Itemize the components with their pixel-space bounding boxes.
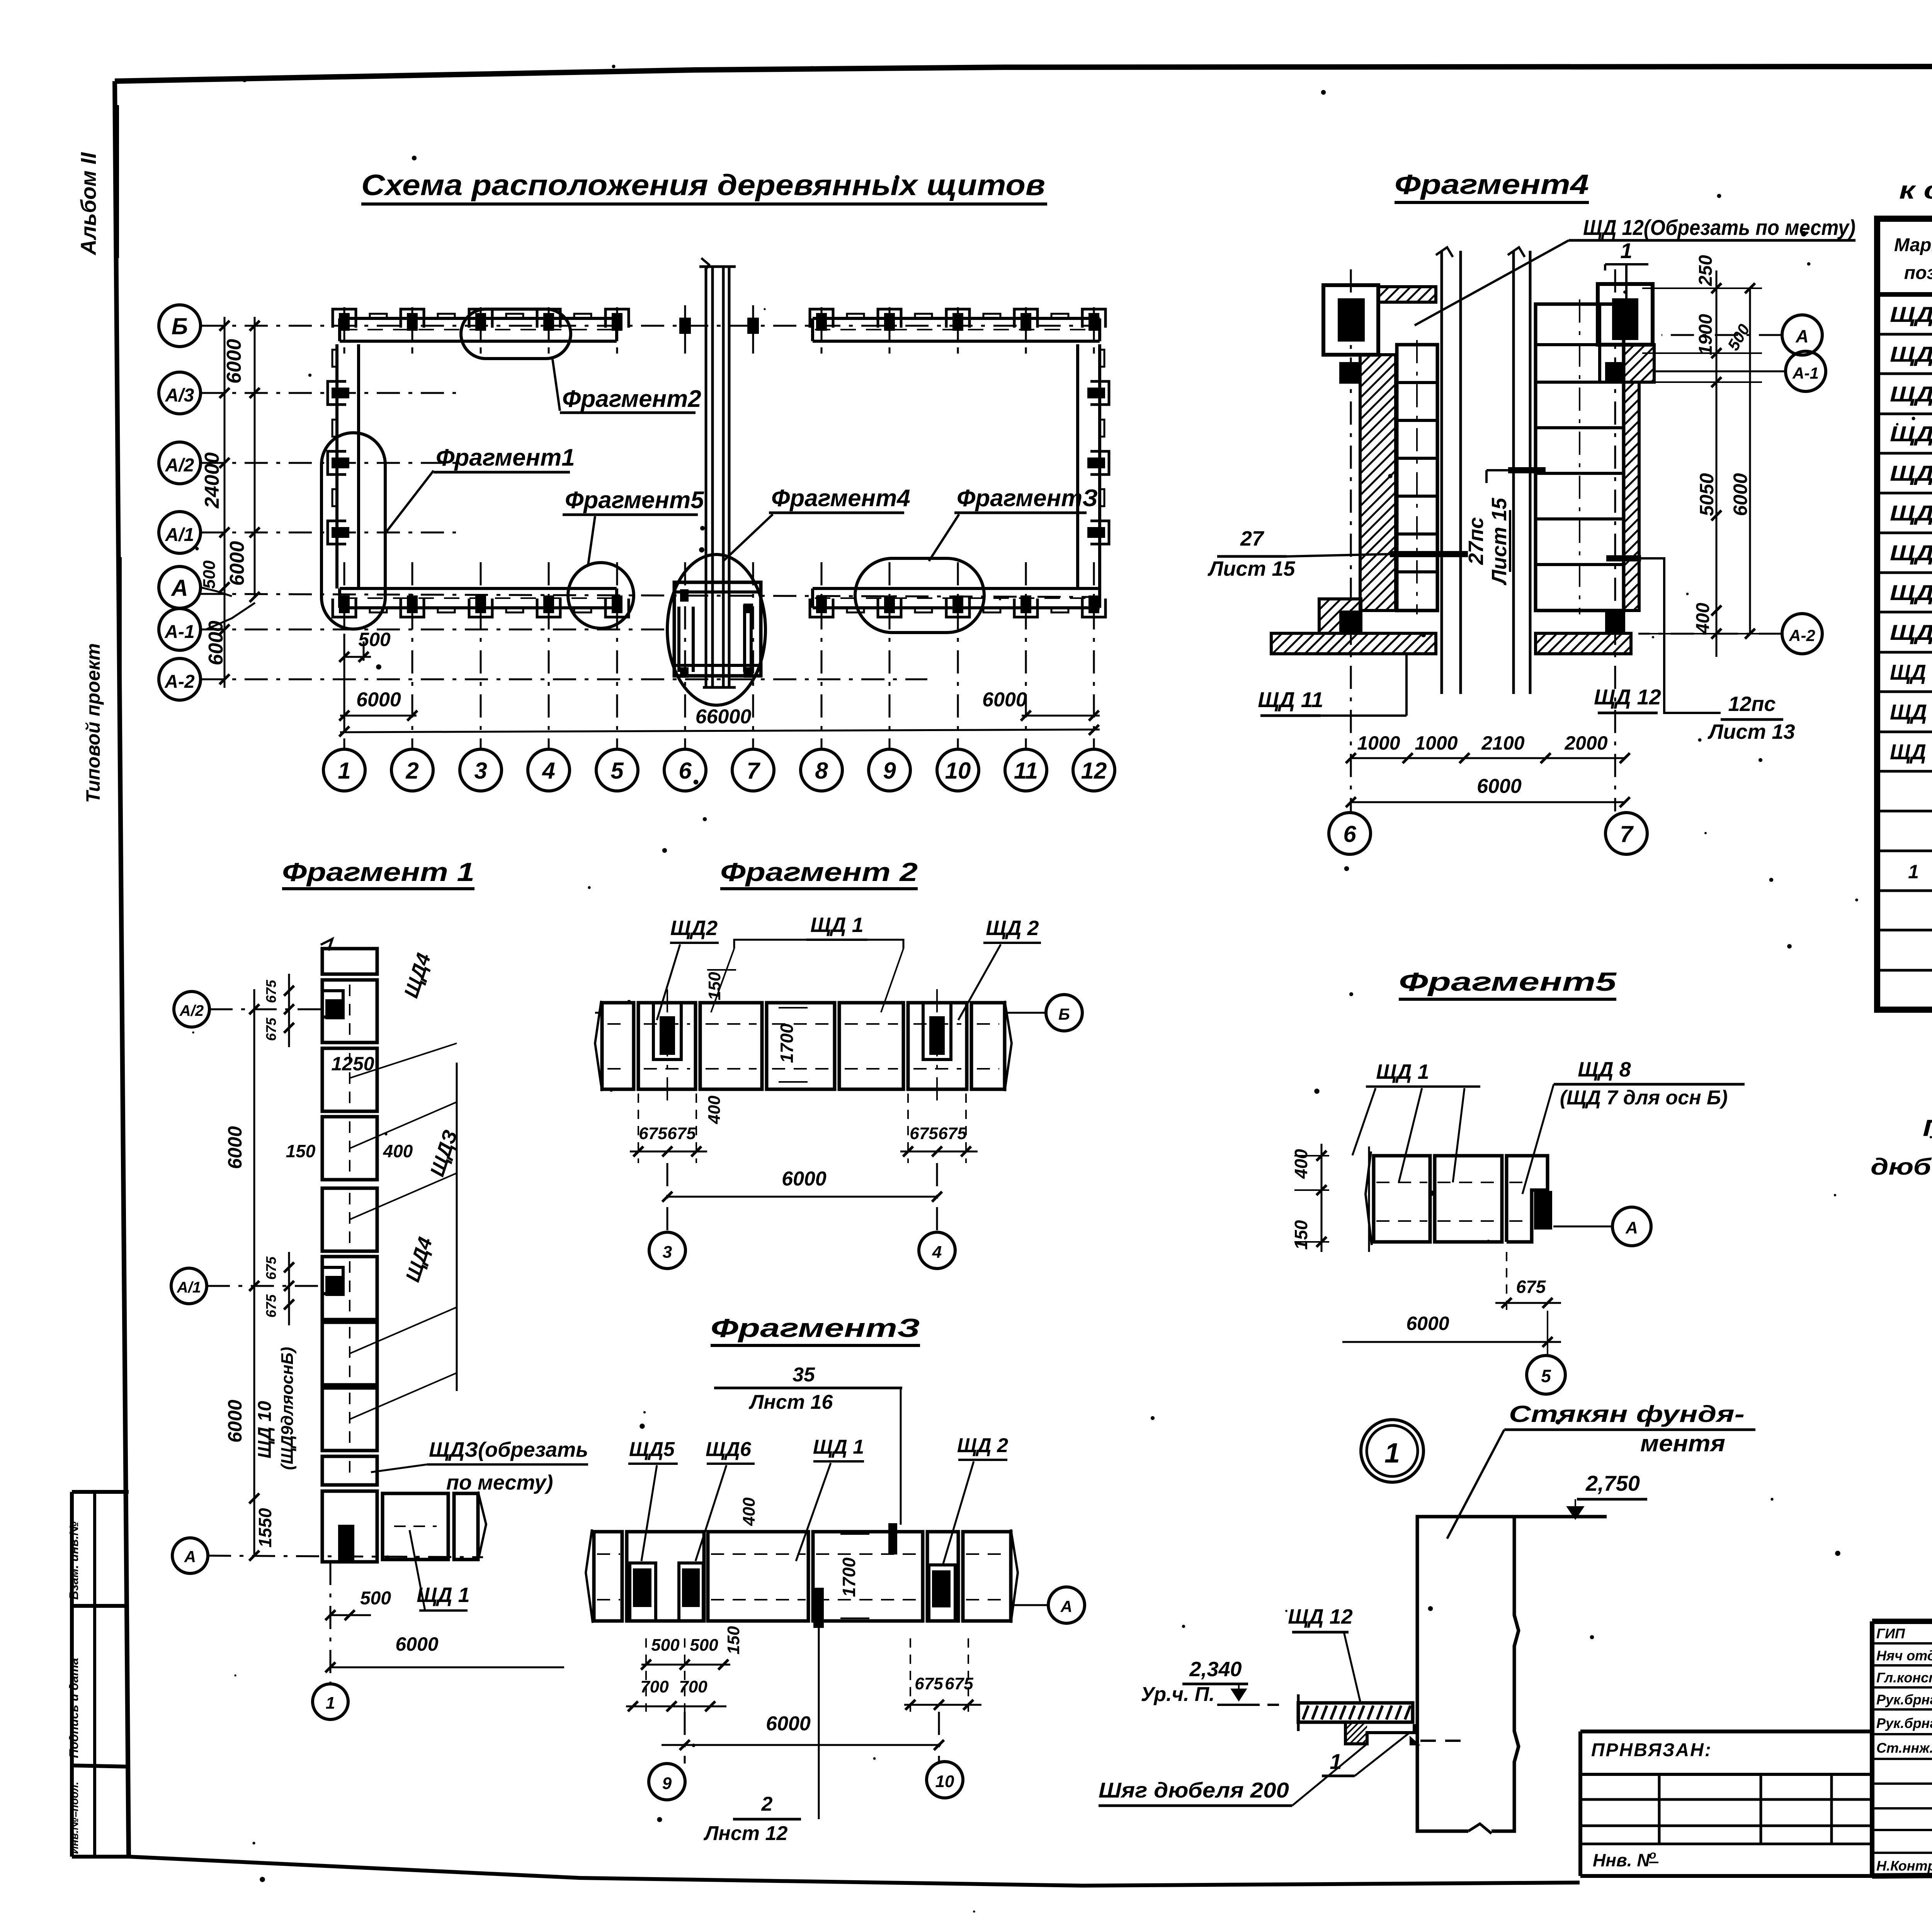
- fragment 3 panel run: [594, 1532, 622, 1621]
- svg-text:Ннв. N: Ннв. N: [1593, 1850, 1650, 1870]
- fragment 5 axis A circle: [1612, 1207, 1651, 1246]
- svg-text:500: 500: [690, 1636, 718, 1655]
- scan speckles: [1314, 1088, 1319, 1094]
- svg-text:6: 6: [679, 758, 692, 784]
- svg-text:675: 675: [938, 1124, 967, 1143]
- svg-text:А-1: А-1: [164, 622, 194, 642]
- svg-text:А: А: [1625, 1218, 1638, 1237]
- svg-text:Лист 15: Лист 15: [1488, 497, 1511, 585]
- svg-text:6000: 6000: [356, 689, 401, 711]
- fragment 1 pockets with black squares: [322, 991, 343, 1017]
- fragment 4 column 6 axis: [1350, 269, 1352, 811]
- svg-text:Ст.ннж.: Ст.ннж.: [1876, 1740, 1932, 1756]
- svg-text:Няч отд.: Няч отд.: [1876, 1648, 1932, 1663]
- svg-text:400: 400: [1291, 1149, 1311, 1179]
- svg-text:4: 4: [542, 758, 555, 784]
- svg-text:ЩД6: ЩД6: [706, 1438, 752, 1461]
- svg-text:Лнст 12: Лнст 12: [703, 1822, 788, 1845]
- standalone squares on B axis cols 6,7: [679, 318, 691, 334]
- svg-text:675: 675: [263, 1017, 279, 1041]
- privyazan box: [1580, 1730, 1872, 1733]
- svg-text:700: 700: [640, 1677, 669, 1696]
- svg-text:6000: 6000: [782, 1168, 827, 1190]
- signature table: [1872, 1642, 1932, 1645]
- svg-text:6000: 6000: [1730, 473, 1751, 516]
- svg-text:Инв.№=подл.: Инв.№=подл.: [68, 1782, 80, 1854]
- building left wall: [335, 344, 338, 588]
- svg-text:ФрагментЗ: ФрагментЗ: [957, 485, 1098, 512]
- svg-text:11: 11: [1014, 758, 1038, 784]
- fragment 1 axis circles: [174, 992, 209, 1027]
- svg-text:А/2: А/2: [165, 455, 194, 476]
- svg-text:150: 150: [724, 1626, 743, 1655]
- svg-text:1900: 1900: [1696, 314, 1716, 355]
- svg-text:Гл.констр: Гл.констр: [1876, 1670, 1932, 1685]
- svg-text:7: 7: [747, 758, 760, 784]
- svg-text:7: 7: [1620, 821, 1634, 847]
- svg-text:ЩД 7: ЩД 7: [1890, 541, 1932, 565]
- fragment 4 27 list 15 marker left: [1390, 551, 1468, 557]
- fragment 3 pocket col 10: [927, 1532, 958, 1621]
- svg-text:1000: 1000: [1357, 732, 1400, 754]
- svg-text:4: 4: [932, 1243, 942, 1262]
- svg-text:ЩД 12: ЩД 12: [1288, 1605, 1352, 1628]
- svg-text:675: 675: [667, 1124, 696, 1143]
- fragment 4 bottom dimensions: [1351, 757, 1625, 759]
- svg-text:9: 9: [662, 1774, 672, 1793]
- fragment 4 right black squares: [1605, 362, 1625, 384]
- svg-text:675: 675: [639, 1124, 667, 1143]
- fragment 1 bottom black bar: [338, 1525, 354, 1562]
- fragment 4 12ps marker: [1606, 555, 1641, 561]
- fragment 1 dimension column: [253, 989, 255, 1556]
- svg-text:А: А: [170, 575, 188, 601]
- svg-text:Лист 15: Лист 15: [1207, 557, 1295, 580]
- svg-text:Фрагмент 1: Фрагмент 1: [282, 857, 474, 887]
- svg-text:(ЩД 7 для осн Б): (ЩД 7 для осн Б): [1560, 1087, 1728, 1109]
- svg-text:675: 675: [945, 1674, 973, 1693]
- svg-text:Шяг дюбеля 200: Шяг дюбеля 200: [1099, 1778, 1289, 1802]
- svg-text:1: 1: [1620, 238, 1632, 263]
- svg-text:6000: 6000: [226, 541, 248, 586]
- svg-text:2000: 2000: [1564, 732, 1607, 754]
- svg-text:А/1: А/1: [177, 1279, 201, 1296]
- svg-text:ЩД 5: ЩД 5: [1890, 461, 1932, 485]
- svg-text:ЩД 11: ЩД 11: [1258, 687, 1323, 712]
- fragment 4 left hatched wall: [1360, 355, 1396, 611]
- fragment 4 left panel column: [1397, 345, 1437, 611]
- svg-text:6000: 6000: [395, 1633, 438, 1655]
- svg-text:Фрагмент1: Фрагмент1: [436, 444, 575, 471]
- svg-text:500: 500: [200, 560, 219, 589]
- svg-text:675: 675: [1516, 1277, 1546, 1297]
- svg-text:150: 150: [705, 972, 724, 1000]
- fragment 2 panel run: [602, 1003, 634, 1089]
- svg-text:ЩД 12: ЩД 12: [1594, 685, 1661, 709]
- svg-text:27пс: 27пс: [1464, 517, 1488, 565]
- svg-text:А/3: А/3: [165, 385, 194, 406]
- svg-text:6000: 6000: [982, 689, 1027, 711]
- title block outer frame: [1872, 1619, 1932, 1624]
- svg-text:1: 1: [326, 1694, 335, 1713]
- svg-text:ПРНВЯЗАН:: ПРНВЯЗАН:: [1591, 1740, 1712, 1760]
- svg-text:2,750: 2,750: [1585, 1471, 1640, 1495]
- fragment 2 pockets: [653, 1003, 681, 1060]
- fragment 4 rails: [1440, 251, 1443, 694]
- svg-text:ЩД 10: ЩД 10: [1890, 660, 1932, 684]
- building top wall run 1: [340, 317, 617, 320]
- fragment 4 right hatched wall: [1624, 345, 1654, 382]
- building top wall run 2: [813, 317, 1100, 320]
- svg-text:ЩД 1: ЩД 1: [810, 913, 863, 937]
- svg-text:2100: 2100: [1481, 732, 1524, 754]
- svg-text:по месту): по месту): [446, 1471, 553, 1494]
- svg-text:675: 675: [263, 1294, 279, 1318]
- plan left dimension lines: [224, 317, 226, 688]
- left margin attribute boxes: [72, 1490, 129, 1494]
- svg-text:1: 1: [338, 758, 350, 784]
- fragment 5 panels: [1374, 1156, 1430, 1242]
- column grid lines: [344, 307, 345, 354]
- svg-text:ЩД 4: ЩД 4: [1890, 422, 1932, 446]
- svg-text:1550: 1550: [255, 1508, 275, 1548]
- fragment 4 left corner block: [1323, 285, 1378, 355]
- svg-text:Фрагмент5: Фрагмент5: [565, 487, 704, 514]
- svg-text:675: 675: [263, 1256, 279, 1280]
- svg-text:6000: 6000: [224, 1400, 246, 1442]
- svg-text:5050: 5050: [1696, 473, 1718, 516]
- fragment 1 corner bottom: [322, 1491, 377, 1562]
- fragment 1 vertical panel strip: [322, 949, 377, 974]
- svg-text:Н.Контр.: Н.Контр.: [1876, 1858, 1932, 1874]
- svg-text:ЩД 2: ЩД 2: [957, 1434, 1008, 1457]
- fragment circle 5 on plan: [568, 563, 634, 628]
- svg-text:ЩД 12: ЩД 12: [1890, 740, 1932, 764]
- building right wall: [1076, 344, 1079, 588]
- svg-text:А/1: А/1: [165, 525, 194, 545]
- svg-text:2: 2: [405, 758, 418, 784]
- fragment 4 right bottom hatched band: [1536, 633, 1631, 654]
- svg-text:Лнст 16: Лнст 16: [748, 1391, 833, 1413]
- svg-text:10: 10: [945, 758, 971, 784]
- svg-text:Ур.ч. П.: Ур.ч. П.: [1141, 1683, 1214, 1706]
- svg-text:ЩД 1: ЩД 1: [813, 1436, 864, 1458]
- fragment oval 3 on plan: [855, 558, 984, 633]
- fragment 3 T pocket pair: [627, 1532, 704, 1621]
- svg-text:Фрагмент5: Фрагмент5: [1399, 967, 1617, 997]
- svg-text:3: 3: [663, 1243, 672, 1262]
- fragment 4 right panel column: [1536, 304, 1624, 611]
- column circles 1-12: [323, 749, 365, 791]
- svg-text:ЩД 2: ЩД 2: [986, 917, 1039, 940]
- svg-text:А: А: [184, 1548, 196, 1566]
- fragment 2 axis B circle: [1046, 995, 1082, 1031]
- page frame border: [115, 66, 1932, 81]
- fragment 4 right dimension lines: [1716, 270, 1718, 657]
- building bottom wall run 1: [340, 587, 617, 590]
- svg-text:А-2: А-2: [1789, 626, 1815, 645]
- wall panel centre dashes: [342, 329, 614, 330]
- svg-text:к схеме расположення деревян: к схеме расположення деревянных щнтов: [1899, 176, 1932, 204]
- spec table frame: [1877, 219, 1932, 1010]
- fragment 4 column 7 axis: [1614, 269, 1616, 811]
- svg-text:Лист 13: Лист 13: [1707, 720, 1795, 743]
- svg-text:Типовой проект: Типовой проект: [82, 643, 104, 803]
- fragment 1 bottom horizontal panels: [383, 1493, 448, 1560]
- svg-text:3: 3: [474, 758, 487, 784]
- svg-text:5: 5: [1541, 1366, 1551, 1386]
- svg-text:ЩД 11: ЩД 11: [1890, 700, 1932, 724]
- svg-text:6000: 6000: [1477, 775, 1522, 798]
- svg-text:675: 675: [263, 980, 279, 1003]
- fragment 4 left black squares: [1339, 362, 1361, 384]
- svg-text:поз.: поз.: [1904, 263, 1932, 283]
- black anchor arrow: [1410, 1736, 1420, 1745]
- svg-text:ЩДЗ(обрезать: ЩДЗ(обрезать: [429, 1438, 588, 1461]
- svg-text:Взам. инв.№: Взам. инв.№: [67, 1521, 81, 1600]
- fragment 3 black tick markers: [888, 1523, 897, 1554]
- svg-text:1: 1: [1908, 861, 1919, 883]
- svg-text:27: 27: [1240, 527, 1265, 550]
- svg-text:ЩД 8: ЩД 8: [1578, 1058, 1631, 1081]
- svg-text:Фрагмент4: Фрагмент4: [1395, 169, 1589, 200]
- svg-text:Схема расположения деревянных: Схема расположения деревянных щитов: [361, 169, 1045, 202]
- svg-text:675: 675: [910, 1124, 938, 1143]
- svg-text:675: 675: [915, 1674, 943, 1693]
- svg-text:Б: Б: [172, 313, 188, 339]
- svg-text:ЩД 3: ЩД 3: [1890, 382, 1932, 406]
- svg-text:ментя: ментя: [1640, 1430, 1725, 1456]
- fragment 4 left bottom hatched band: [1271, 633, 1436, 654]
- fragment 4 column circles 6,7: [1329, 813, 1371, 854]
- svg-text:35: 35: [793, 1364, 815, 1386]
- svg-text:(ЩД9дляоснБ): (ЩД9дляоснБ): [278, 1347, 297, 1470]
- svg-text:ГИП: ГИП: [1876, 1626, 1905, 1641]
- svg-text:1: 1: [1384, 1438, 1400, 1469]
- fragment oval 1 on plan: [321, 433, 385, 629]
- svg-text:дюбелем. ДГ 5,5 ×60: дюбелем. ДГ 5,5 ×60: [1871, 1154, 1932, 1180]
- svg-text:6000: 6000: [223, 339, 245, 384]
- svg-text:24000: 24000: [201, 452, 223, 509]
- fragment 3 axis A circle: [1048, 1587, 1085, 1623]
- expansion joint rails between cols 6-7: [705, 267, 707, 687]
- svg-text:Рук.брнг: Рук.брнг: [1876, 1692, 1932, 1708]
- svg-text:500: 500: [651, 1636, 680, 1655]
- fragment 4 left top hatched band: [1378, 287, 1436, 302]
- svg-text:А-2: А-2: [164, 672, 195, 692]
- svg-text:ЩД 1: ЩД 1: [1376, 1060, 1429, 1083]
- svg-text:400: 400: [705, 1095, 724, 1124]
- svg-text:ЩД 12(Обрезать по месту): ЩД 12(Обрезать по месту): [1583, 215, 1855, 240]
- fragment 1 column circle 1: [313, 1684, 348, 1719]
- svg-text:400: 400: [383, 1141, 413, 1161]
- building bottom wall run 2: [813, 587, 1100, 590]
- svg-text:150: 150: [286, 1141, 316, 1161]
- svg-text:Альбом II: Альбом II: [76, 152, 100, 256]
- svg-text:ЩД 6: ЩД 6: [1890, 501, 1932, 525]
- svg-text:5: 5: [611, 758, 624, 784]
- axis circles left: [159, 305, 201, 347]
- svg-text:ЩД5: ЩД5: [629, 1438, 675, 1461]
- fragment oval 2 on plan: [461, 309, 571, 359]
- angle piece pos 1: [1345, 1722, 1414, 1744]
- svg-text:1700: 1700: [839, 1557, 859, 1597]
- svg-text:Фрагмент2: Фрагмент2: [562, 386, 701, 412]
- svg-text:о: о: [1649, 1849, 1656, 1861]
- svg-text:66000: 66000: [696, 706, 752, 728]
- svg-text:Стякян фундя-: Стякян фундя-: [1509, 1401, 1745, 1427]
- fragment 5 circle 5: [1527, 1355, 1565, 1394]
- fragment 3 circles 9,10: [649, 1764, 685, 1800]
- svg-text:400: 400: [740, 1497, 759, 1526]
- svg-text:700: 700: [679, 1677, 707, 1696]
- svg-text:А-1: А-1: [1792, 364, 1819, 382]
- svg-text:ЩД 10: ЩД 10: [255, 1401, 275, 1458]
- svg-text:9: 9: [883, 758, 896, 784]
- svg-text:Фрагмент 2: Фрагмент 2: [720, 857, 918, 887]
- svg-text:6000: 6000: [766, 1713, 811, 1735]
- svg-text:10: 10: [935, 1772, 954, 1791]
- svg-text:А/2: А/2: [179, 1002, 204, 1019]
- svg-text:ЩД 8: ЩД 8: [1890, 580, 1932, 605]
- svg-text:ФрагментЗ: ФрагментЗ: [711, 1313, 920, 1343]
- svg-text:ЩД 1: ЩД 1: [1890, 302, 1932, 327]
- svg-text:12пс: 12пс: [1728, 692, 1776, 716]
- svg-text:250: 250: [1696, 255, 1716, 286]
- svg-text:Рук.брнг: Рук.брнг: [1876, 1715, 1932, 1731]
- foundation cup rectangle: [1417, 1517, 1607, 1831]
- svg-text:ЩД2: ЩД2: [670, 917, 718, 940]
- svg-text:А: А: [1795, 326, 1808, 346]
- panel cross-section hatched bar: [1298, 1703, 1413, 1722]
- svg-text:400: 400: [1693, 603, 1713, 634]
- svg-text:6000: 6000: [1406, 1313, 1449, 1334]
- svg-text:12: 12: [1081, 758, 1107, 784]
- fragment 1 leader bracket for SchD3: [456, 1063, 458, 1391]
- axis lines: [201, 325, 1101, 327]
- svg-text:500: 500: [360, 1588, 391, 1609]
- svg-text:150: 150: [1291, 1220, 1311, 1250]
- lower structure between cols 6-7 below A axis: [674, 582, 761, 676]
- node 1 double circle: [1361, 1420, 1423, 1482]
- svg-text:8: 8: [815, 758, 828, 784]
- fragment 2 circles 3,4: [649, 1232, 685, 1269]
- svg-text:1000: 1000: [1415, 732, 1458, 754]
- svg-text:Марка: Марка: [1894, 235, 1932, 255]
- svg-text:ЩД 9: ЩД 9: [1890, 620, 1932, 645]
- fragment 4 right corner block: [1598, 284, 1653, 345]
- fragment 4 27ps list 15 marker: [1508, 467, 1546, 473]
- svg-text:ЩД 2: ЩД 2: [1890, 342, 1932, 366]
- fragment oval 4 on plan: [667, 554, 765, 705]
- svg-text:Подпись и дата: Подпись и дата: [67, 1658, 81, 1758]
- svg-text:Фрагмент4: Фрагмент4: [771, 485, 910, 512]
- svg-text:2,340: 2,340: [1189, 1658, 1242, 1681]
- svg-text:6: 6: [1343, 821, 1356, 847]
- svg-text:6000: 6000: [224, 1126, 246, 1169]
- svg-text:Б: Б: [1058, 1005, 1070, 1023]
- svg-text:2: 2: [761, 1793, 773, 1815]
- svg-text:1700: 1700: [777, 1023, 797, 1063]
- fragment 4 axis circles right: [1782, 315, 1822, 355]
- svg-text:6000: 6000: [205, 621, 227, 665]
- svg-text:А: А: [1060, 1597, 1072, 1616]
- svg-text:ЩД 1: ЩД 1: [417, 1583, 469, 1607]
